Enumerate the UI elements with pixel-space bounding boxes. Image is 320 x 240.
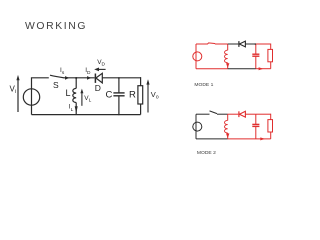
- mode2 IL arrowhead: [226, 134, 229, 139]
- VL arrow: [81, 92, 83, 106]
- capacitor C top lead: [118, 78, 120, 93]
- VD arrowhead: [94, 68, 99, 72]
- mode2 output current arrowhead: [260, 137, 265, 140]
- wire bottom: [32, 114, 141, 116]
- mode1 junction dot top: [254, 43, 256, 45]
- svg-text:IL: IL: [69, 104, 74, 113]
- wire right edge top (to resistor): [140, 77, 142, 86]
- svg-text:C: C: [106, 90, 113, 101]
- mode1 wire bottom left: [196, 68, 228, 70]
- mode1 resistor bottom lead: [270, 62, 272, 69]
- mode2 resistor bottom lead: [270, 132, 272, 139]
- mode1 source circle: [193, 52, 202, 61]
- mode2 switch blade open: [210, 111, 218, 114]
- svg-text:Is: Is: [60, 67, 65, 76]
- mode1 diode cathode bar: [238, 41, 240, 47]
- mode2 wire top after switch: [217, 113, 228, 115]
- wire left edge: [32, 78, 49, 115]
- mode2 diode triangle: [239, 111, 245, 117]
- inductor L top lead: [75, 78, 77, 89]
- diode D cathode bar: [94, 74, 96, 83]
- diode D triangle: [96, 73, 102, 83]
- capacitor C bottom plate: [113, 95, 124, 97]
- mode2 inductor bottom lead: [227, 133, 229, 139]
- mode2 capacitor top lead: [255, 114, 257, 124]
- svg-text:R: R: [129, 90, 136, 101]
- mode1 inductor top lead: [227, 44, 229, 50]
- mode1 diode right lead black: [245, 43, 256, 45]
- mode1 wire top left with closed switch bump: [196, 43, 228, 44]
- IL current arrowhead: [75, 106, 78, 113]
- mode2 diode right lead: [245, 113, 256, 115]
- mode1 output current arrowhead: [259, 67, 264, 70]
- Vi arrow: [17, 79, 19, 113]
- junction dot at capacitor bottom: [118, 114, 120, 116]
- mode2 wire bottom right red: [228, 138, 271, 140]
- mode1 wire top mid black (diode branch): [228, 43, 239, 45]
- mode1 wire left edge: [195, 44, 197, 69]
- mode1 resistor body: [268, 49, 273, 61]
- capacitor C bottom lead: [118, 96, 120, 114]
- svg-text:S: S: [53, 80, 59, 90]
- svg-text:L: L: [66, 88, 71, 98]
- wire top right (diode to R): [102, 77, 140, 79]
- mode1 IL arrowhead: [226, 63, 229, 68]
- inductor L bottom lead: [75, 103, 77, 115]
- mode2 source circle: [193, 122, 202, 131]
- VD arrow line: [97, 68, 106, 70]
- voltage source Vi circle: [23, 89, 39, 105]
- resistor R body: [138, 86, 143, 104]
- junction dot at inductor top: [75, 77, 77, 79]
- ID current arrowhead: [87, 76, 91, 80]
- Vo arrowhead: [146, 79, 149, 84]
- mode2 wire left edge: [195, 114, 197, 139]
- mode1 capacitor top lead: [255, 44, 257, 54]
- mode2 inductor top lead: [227, 114, 229, 120]
- switch S blade: [50, 75, 64, 78]
- slide title: [25, 22, 87, 32]
- mode1 wire bottom mid black: [228, 68, 256, 70]
- wire top (switch to diode): [64, 77, 95, 79]
- Vi arrowhead: [16, 75, 19, 80]
- labels of main circuit: [10, 59, 159, 113]
- mode1 inductor coil: [224, 50, 227, 63]
- svg-text:VL: VL: [84, 95, 91, 104]
- mode1 wire top right: [256, 43, 271, 45]
- mode1 inductor bottom lead: [227, 63, 229, 69]
- mode2 resistor body: [268, 120, 273, 132]
- capacitor C top plate: [113, 92, 124, 94]
- mode2 resistor top lead: [270, 114, 272, 120]
- mode2 wire bottom left black: [196, 138, 228, 140]
- mode2 wire top mid (diode branch): [228, 113, 239, 115]
- mode1 capacitor plates: [252, 53, 259, 55]
- VL arrowhead: [80, 89, 83, 94]
- svg-text:MODE 2: MODE 2: [197, 150, 216, 156]
- mode2 inductor coil: [224, 120, 227, 133]
- mode1 resistor top lead: [270, 44, 272, 50]
- wire right edge bottom: [140, 104, 142, 115]
- svg-text:Vo: Vo: [151, 90, 159, 101]
- mode2 diode cathode bar: [238, 111, 240, 117]
- svg-text:VD: VD: [97, 59, 105, 68]
- mode1 wire bottom right: [256, 68, 271, 70]
- mode1 diode triangle: [239, 41, 245, 47]
- mode2 capacitor bottom lead: [255, 127, 257, 139]
- mode2 wire top left: [196, 113, 210, 115]
- mode2 wire top right: [256, 113, 271, 115]
- svg-text:D: D: [95, 83, 101, 93]
- junction dot at capacitor top: [118, 77, 120, 79]
- Is current arrowhead: [65, 76, 69, 80]
- inductor L coil: [73, 88, 76, 102]
- svg-text:MODE 1: MODE 1: [194, 82, 213, 88]
- svg-text:ID: ID: [85, 67, 91, 76]
- svg-text:Vi: Vi: [10, 85, 17, 96]
- mode2 capacitor plates: [252, 123, 259, 125]
- mode1 capacitor bottom lead: [255, 57, 257, 69]
- Vo arrow: [147, 84, 149, 113]
